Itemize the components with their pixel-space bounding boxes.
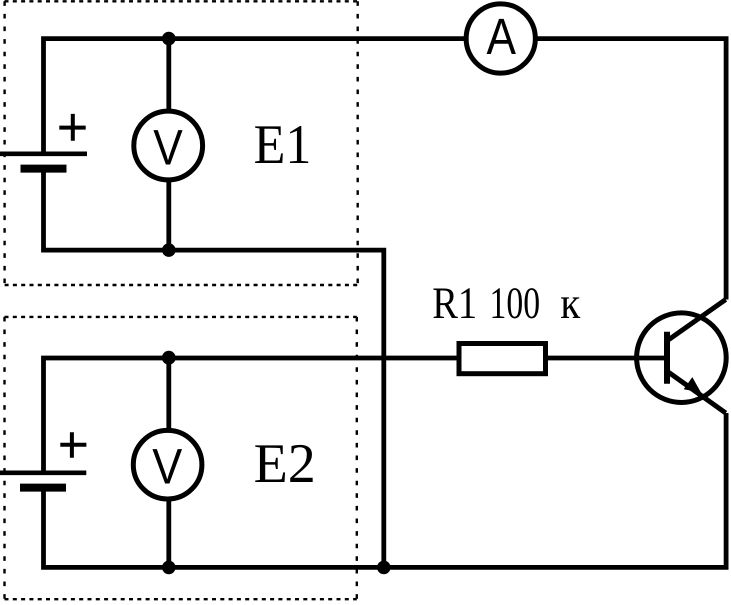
svg-text:100: 100	[490, 278, 541, 328]
svg-text:к: к	[560, 278, 580, 328]
svg-text:V: V	[152, 438, 183, 494]
svg-text:R1: R1	[432, 278, 477, 328]
svg-text:E2: E2	[254, 433, 316, 495]
svg-text:V: V	[153, 120, 183, 176]
svg-text:A: A	[486, 8, 516, 65]
svg-text:E1: E1	[254, 114, 312, 176]
